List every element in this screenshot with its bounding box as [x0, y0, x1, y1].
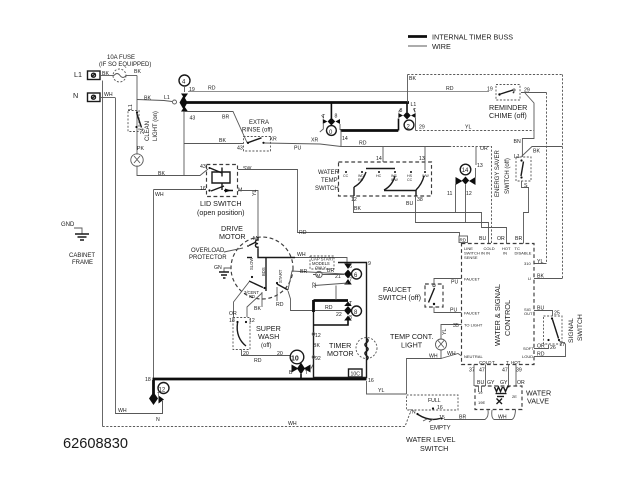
svg-text:SOFT: SOFT	[523, 346, 534, 351]
svg-text:BR: BR	[459, 415, 466, 421]
svg-text:LID SWITCH: LID SWITCH	[200, 199, 242, 208]
svg-text:SWITCH: SWITCH	[420, 444, 448, 453]
svg-text:OR: OR	[537, 344, 545, 350]
svg-text:HC: HC	[376, 174, 382, 178]
svg-text:19: 19	[487, 87, 493, 93]
svg-text:XR: XR	[270, 137, 277, 143]
svg-text:29: 29	[419, 125, 425, 131]
svg-text:BK: BK	[254, 306, 261, 312]
svg-text:PK: PK	[137, 146, 144, 152]
svg-text:11: 11	[447, 191, 452, 197]
svg-text:START: START	[278, 269, 283, 283]
svg-text:YL: YL	[442, 329, 448, 335]
svg-text:WATER & SIGNAL: WATER & SIGNAL	[493, 284, 502, 346]
svg-text:TEMP: TEMP	[321, 178, 338, 184]
svg-text:19: 19	[189, 87, 195, 93]
svg-text:GN: GN	[214, 265, 222, 271]
svg-text:VALVE: VALVE	[527, 397, 549, 406]
svg-text:8: 8	[335, 114, 338, 120]
svg-text:20: 20	[243, 351, 249, 357]
svg-text:SLOW: SLOW	[249, 258, 254, 270]
svg-text:19: 19	[478, 390, 483, 395]
svg-text:CC: CC	[407, 178, 413, 182]
svg-text:BU: BU	[479, 236, 486, 242]
svg-text:N: N	[73, 91, 78, 100]
svg-text:IN: IN	[486, 251, 490, 256]
svg-text:BU: BU	[477, 380, 484, 386]
svg-text:43: 43	[190, 116, 196, 122]
svg-text:BN: BN	[514, 139, 521, 145]
svg-text:BR: BR	[515, 236, 522, 242]
svg-text:YL: YL	[378, 388, 384, 394]
svg-text:OUT: OUT	[524, 311, 533, 316]
svg-text:FULL: FULL	[428, 398, 441, 404]
svg-text:RD: RD	[299, 230, 307, 236]
svg-text:WH: WH	[498, 415, 507, 421]
svg-text:38: 38	[417, 197, 423, 203]
svg-text:BK: BK	[313, 343, 320, 349]
svg-text:B: B	[289, 370, 293, 376]
svg-text:BK: BK	[219, 138, 226, 144]
svg-text:RD: RD	[249, 294, 255, 299]
svg-text:LIGHT (on): LIGHT (on)	[153, 111, 159, 141]
svg-text:OR: OR	[517, 380, 525, 386]
svg-text:SWITCH (off): SWITCH (off)	[505, 158, 511, 194]
svg-text:22: 22	[312, 282, 318, 288]
svg-text:BDS: BDS	[261, 267, 266, 276]
svg-text:LOUD: LOUD	[522, 354, 533, 359]
svg-text:CC: CC	[343, 174, 349, 178]
svg-text:RD: RD	[446, 86, 454, 92]
svg-text:BK: BK	[409, 76, 416, 82]
svg-text:S: S	[524, 183, 528, 189]
svg-text:RD: RD	[359, 141, 367, 147]
svg-text:12: 12	[315, 333, 321, 339]
svg-text:RINSE (off): RINSE (off)	[242, 128, 273, 134]
svg-text:14: 14	[376, 156, 382, 162]
svg-text:18: 18	[229, 318, 235, 324]
svg-text:(open position): (open position)	[197, 208, 245, 217]
svg-text:20: 20	[277, 351, 283, 357]
svg-text:YL: YL	[465, 125, 471, 131]
svg-text:WH: WH	[155, 192, 164, 198]
svg-text:WH: WH	[429, 354, 438, 360]
svg-text:INTERNAL TIMER BUSS: INTERNAL TIMER BUSS	[432, 33, 513, 42]
svg-text:PROTECTOR: PROTECTOR	[189, 255, 227, 261]
svg-text:T: T	[492, 360, 495, 365]
svg-text:SWITCH: SWITCH	[315, 186, 339, 192]
svg-text:15: 15	[439, 415, 445, 421]
svg-text:ENERGY SAVER: ENERGY SAVER	[495, 150, 501, 197]
svg-text:BK: BK	[144, 96, 151, 102]
svg-text:FRAME: FRAME	[72, 260, 93, 266]
svg-text:WH: WH	[447, 351, 456, 357]
svg-text:6: 6	[349, 264, 352, 270]
svg-text:8: 8	[400, 108, 403, 114]
svg-text:47: 47	[502, 368, 508, 374]
svg-text:BK: BK	[537, 274, 544, 280]
svg-text:CHIME (off): CHIME (off)	[489, 111, 527, 120]
svg-text:SENSE: SENSE	[464, 255, 478, 260]
svg-text:26: 26	[550, 345, 556, 351]
svg-text:7N: 7N	[409, 410, 416, 416]
svg-text:CABINET: CABINET	[69, 253, 95, 259]
svg-text:43: 43	[200, 164, 206, 170]
svg-text:12: 12	[159, 388, 166, 394]
svg-text:PU: PU	[451, 280, 458, 286]
svg-text:SWITCH: SWITCH	[577, 314, 584, 341]
svg-text:M: M	[317, 273, 321, 278]
svg-text:47: 47	[479, 368, 485, 374]
svg-text:YL: YL	[252, 190, 258, 196]
svg-text:39: 39	[516, 368, 522, 374]
svg-text:IN: IN	[503, 251, 507, 256]
svg-text:35: 35	[453, 323, 459, 329]
svg-text:8: 8	[349, 315, 352, 321]
svg-text:13: 13	[419, 156, 425, 162]
svg-text:9: 9	[368, 261, 371, 267]
svg-text:BU: BU	[537, 306, 544, 312]
svg-text:WATER: WATER	[318, 170, 340, 176]
svg-text:EMPTY: EMPTY	[430, 426, 451, 432]
svg-text:(IF SO EQUIPPED): (IF SO EQUIPPED)	[99, 62, 151, 68]
svg-text:PU: PU	[450, 308, 457, 314]
svg-text:12: 12	[466, 191, 472, 197]
svg-text:WATER LEVEL: WATER LEVEL	[406, 435, 456, 444]
svg-text:18: 18	[145, 377, 151, 383]
svg-text:(off): (off)	[261, 343, 272, 349]
svg-text:BK: BK	[134, 69, 141, 75]
svg-text:7: 7	[349, 278, 352, 284]
svg-text:BR: BR	[222, 115, 229, 121]
svg-text:YL: YL	[537, 259, 543, 265]
svg-text:ONLY: ONLY	[315, 266, 326, 271]
svg-text:WH: WH	[288, 421, 297, 427]
svg-text:SIGNAL: SIGNAL	[568, 318, 575, 343]
svg-text:16: 16	[437, 405, 443, 411]
svg-text:FAUCET: FAUCET	[464, 311, 480, 316]
svg-text:13: 13	[477, 163, 483, 169]
svg-text:WH: WH	[118, 408, 127, 414]
svg-text:RD: RD	[208, 86, 216, 92]
svg-text:BK: BK	[354, 206, 361, 212]
svg-text:XR: XR	[311, 138, 318, 144]
svg-text:19E: 19E	[478, 400, 485, 405]
svg-text:2E: 2E	[512, 394, 517, 399]
svg-text:COLD: COLD	[479, 360, 492, 365]
svg-text:L1: L1	[164, 95, 170, 101]
svg-text:T: T	[506, 360, 509, 365]
svg-text:GY: GY	[500, 380, 508, 386]
svg-text:FAUCET: FAUCET	[464, 277, 480, 282]
svg-text:CLEAN: CLEAN	[145, 121, 151, 141]
svg-text:SW: SW	[243, 166, 251, 172]
svg-text:OR: OR	[497, 236, 505, 242]
svg-text:LIGHT: LIGHT	[401, 341, 423, 350]
svg-text:RD: RD	[537, 352, 545, 358]
svg-text:HOT: HOT	[511, 360, 521, 365]
svg-text:BK: BK	[533, 149, 540, 155]
svg-text:RD: RD	[460, 238, 467, 243]
svg-text:GY: GY	[487, 380, 495, 386]
svg-text:16: 16	[200, 186, 206, 192]
svg-text:10A FUSE: 10A FUSE	[107, 55, 135, 61]
svg-text:L1: L1	[74, 70, 82, 79]
svg-text:RD: RD	[325, 305, 333, 311]
svg-text:RD: RD	[276, 302, 284, 308]
svg-text:NEUTRAL: NEUTRAL	[464, 354, 483, 359]
svg-text:BK: BK	[158, 171, 165, 177]
svg-text:L1: L1	[128, 104, 134, 110]
svg-text:OR: OR	[229, 311, 237, 317]
svg-text:GND: GND	[61, 222, 75, 228]
svg-text:25: 25	[554, 311, 560, 317]
svg-text:TO LIGHT: TO LIGHT	[464, 323, 483, 328]
svg-text:14: 14	[462, 168, 469, 174]
svg-text:LI: LI	[528, 276, 531, 281]
svg-text:N: N	[156, 417, 160, 423]
svg-text:SWITCH (off): SWITCH (off)	[378, 293, 421, 302]
svg-text:92: 92	[315, 356, 321, 362]
svg-text:BR: BR	[300, 269, 307, 275]
svg-text:WASH: WASH	[258, 332, 279, 341]
svg-text:BU: BU	[406, 201, 413, 207]
svg-text:MOTOR: MOTOR	[219, 232, 246, 241]
svg-text:BK: BK	[102, 71, 109, 77]
svg-text:RD: RD	[254, 358, 262, 364]
svg-text:62608830: 62608830	[63, 436, 128, 452]
svg-text:CONTROL: CONTROL	[503, 300, 512, 336]
svg-text:EXTRA: EXTRA	[249, 120, 269, 126]
svg-text:22: 22	[336, 312, 342, 318]
svg-text:310: 310	[524, 261, 531, 266]
svg-text:DISABLE: DISABLE	[515, 251, 532, 256]
svg-text:10: 10	[291, 356, 299, 363]
svg-text:PU: PU	[294, 146, 301, 152]
svg-text:14: 14	[342, 136, 348, 142]
svg-text:OVERLOAD: OVERLOAD	[191, 248, 225, 254]
svg-text:16: 16	[368, 378, 374, 384]
svg-text:MOTOR: MOTOR	[327, 349, 354, 358]
svg-text:10C: 10C	[351, 372, 361, 378]
svg-text:43: 43	[237, 146, 243, 152]
svg-text:WIRE: WIRE	[432, 42, 451, 51]
